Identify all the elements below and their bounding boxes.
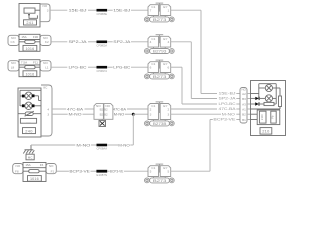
svg-text:1: 1 [168, 9, 170, 13]
svg-text:1016: 1016 [30, 177, 39, 181]
svg-text:M-NO: M-NO [76, 142, 90, 147]
svg-text:NO: NO [49, 164, 54, 168]
svg-text:NO: NO [16, 164, 21, 168]
svg-text:B2: B2 [100, 113, 104, 117]
svg-text:B2: B2 [242, 113, 246, 117]
svg-text:SP2-JA: SP2-JA [219, 97, 237, 101]
svg-text:5: 5 [168, 170, 170, 174]
svg-text:B273B: B273B [153, 122, 168, 126]
svg-text:B3: B3 [242, 97, 246, 101]
svg-text:2100: 2100 [260, 114, 264, 120]
svg-text:15E-BJ: 15E-BJ [69, 8, 87, 13]
svg-text:LPG-BC: LPG-BC [69, 65, 87, 70]
svg-text:M-NO: M-NO [114, 112, 125, 117]
svg-text:A1: A1 [242, 107, 246, 111]
svg-text:B1: B1 [242, 118, 246, 122]
svg-text:210: 210 [262, 129, 270, 134]
svg-text:B273: B273 [153, 179, 167, 183]
svg-text:BCP3-VE: BCP3-VE [213, 118, 236, 122]
svg-text:7: 7 [150, 9, 152, 13]
svg-text:47C-BA: 47C-BA [219, 107, 237, 111]
svg-text:MC: MC [28, 155, 33, 159]
svg-text:4: 4 [150, 40, 152, 44]
svg-text:15E-BJ: 15E-BJ [219, 92, 236, 96]
svg-text:3: 3 [47, 113, 49, 117]
svg-text:3: 3 [150, 113, 152, 117]
svg-text:15A: 15A [25, 163, 30, 167]
svg-text:15E-BJ: 15E-BJ [113, 8, 130, 13]
svg-text:C1: C1 [151, 166, 155, 170]
svg-text:SP2-JA: SP2-JA [113, 39, 130, 44]
svg-text:6: 6 [150, 66, 152, 70]
svg-text:CP0808E: CP0808E [97, 12, 108, 16]
svg-text:B2793: B2793 [153, 49, 167, 53]
svg-text:CP0817A: CP0817A [97, 69, 108, 73]
svg-text:BCP3-VE: BCP3-VE [110, 169, 124, 174]
svg-text:A3: A3 [242, 102, 246, 106]
svg-text:.....: ..... [26, 121, 31, 124]
svg-text:B273: B273 [153, 75, 167, 79]
svg-text:F6: F6 [40, 163, 44, 167]
svg-text:K2: K2 [45, 40, 49, 44]
svg-text:LPG-BC: LPG-BC [219, 102, 236, 106]
svg-text:F1: F1 [51, 170, 55, 174]
svg-text:M-NO: M-NO [222, 112, 235, 116]
svg-text:Pb: Pb [271, 115, 275, 119]
svg-text:CP0805A: CP0805A [97, 43, 108, 47]
svg-text:B2: B2 [104, 107, 108, 111]
svg-text:C1: C1 [151, 5, 155, 9]
svg-text:240: 240 [25, 128, 33, 133]
svg-text:5: 5 [150, 170, 152, 174]
svg-text:3: 3 [47, 9, 49, 13]
svg-text:C1: C1 [151, 37, 155, 41]
svg-text:M-NO: M-NO [69, 112, 82, 117]
svg-text:1016: 1016 [25, 47, 34, 51]
svg-text:6: 6 [168, 66, 170, 70]
svg-text:B2: B2 [104, 113, 108, 117]
svg-text:CP08AA: CP08AA [97, 147, 108, 151]
svg-text:F30: F30 [33, 35, 39, 39]
svg-text:F8: F8 [15, 170, 19, 174]
svg-text:2: 2 [150, 107, 152, 111]
svg-text:B2: B2 [100, 107, 104, 111]
svg-text:15A: 15A [21, 35, 26, 39]
svg-text:L8: L8 [11, 66, 15, 70]
svg-text:241: 241 [26, 21, 33, 25]
svg-text:L1: L1 [45, 66, 49, 70]
svg-text:A2: A2 [242, 92, 246, 96]
svg-text:F11: F11 [33, 60, 38, 64]
svg-text:1016: 1016 [25, 72, 34, 76]
svg-text:M-NO: M-NO [118, 142, 130, 147]
svg-text:B273: B273 [153, 18, 167, 22]
svg-text:7.5A: 7.5A [21, 60, 27, 64]
svg-text:SP2-JA: SP2-JA [69, 39, 87, 44]
svg-text:E1087N: E1087N [97, 173, 108, 177]
svg-text:C1: C1 [151, 62, 155, 66]
svg-text:C3: C3 [11, 40, 15, 44]
svg-text:4: 4 [168, 40, 170, 44]
svg-text:C1: C1 [151, 104, 155, 108]
svg-text:4: 4 [47, 107, 49, 111]
svg-text:BCP3-VE: BCP3-VE [69, 169, 90, 174]
svg-text:2: 2 [168, 107, 170, 111]
svg-text:3: 3 [168, 113, 170, 117]
svg-text:LPG-BC: LPG-BC [113, 65, 130, 70]
